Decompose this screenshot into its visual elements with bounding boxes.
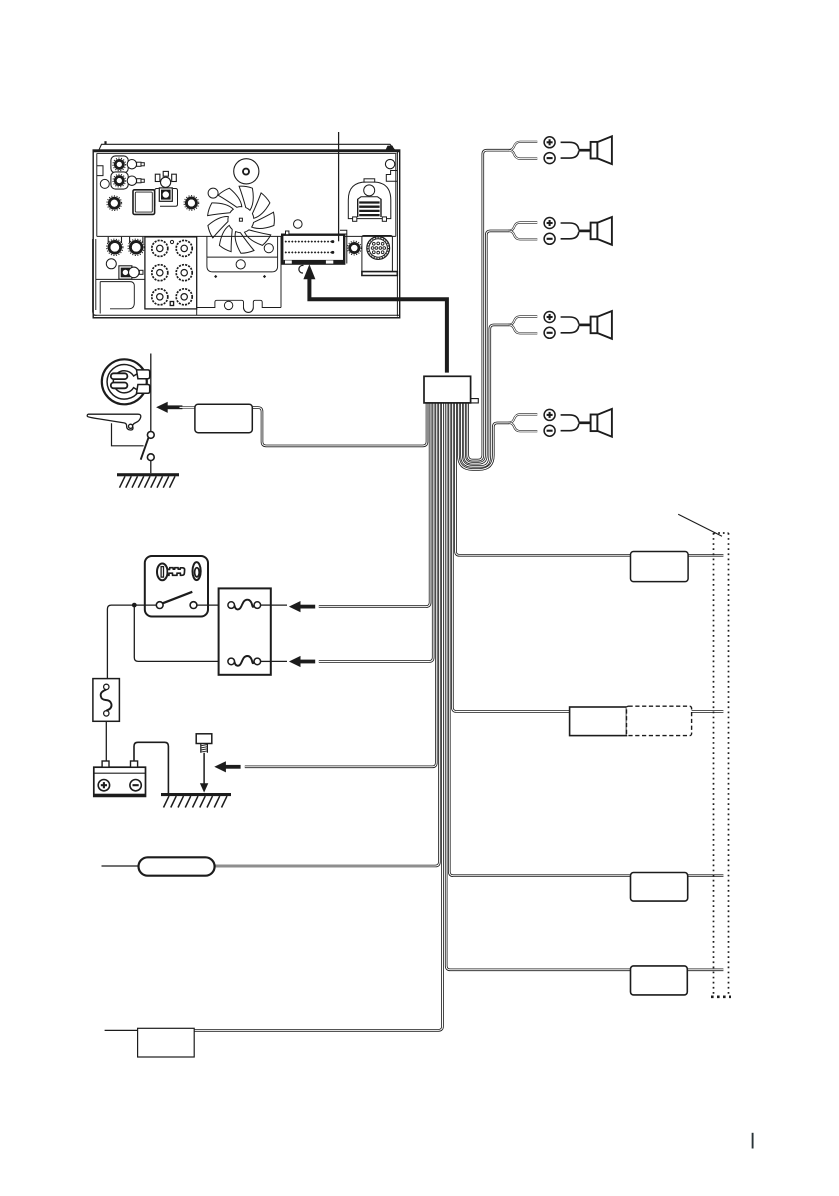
partition left of connector <box>280 236 282 307</box>
speaker RR minus terminal <box>544 425 555 436</box>
head unit rear panel <box>93 141 400 318</box>
arrowhead at connector <box>303 264 315 279</box>
bolt arrow to ground <box>203 753 205 785</box>
wire speaker FL pair <box>468 150 510 460</box>
RCA jack at 184.2,248.4 <box>176 240 192 256</box>
wire antenna control <box>456 401 724 555</box>
bottom plateau <box>197 300 281 307</box>
connector box parking brake <box>195 404 252 433</box>
brake switch blade <box>141 438 149 460</box>
square component <box>133 190 155 215</box>
fuse block <box>219 588 271 674</box>
parking brake hollow lead <box>180 406 195 408</box>
wire battery to ground <box>134 742 168 793</box>
screw top right <box>386 146 395 150</box>
RCA jack at 159.8,272.7 <box>152 265 168 281</box>
arrow ACC wire <box>289 601 315 612</box>
speaker FR fork <box>509 223 538 231</box>
unit outer frame <box>93 150 400 318</box>
keyhole <box>193 562 201 580</box>
speaker FR plus terminal <box>544 218 555 229</box>
wire remote 2 <box>446 401 723 970</box>
RCA barrel 1 <box>127 160 136 169</box>
barrel connector lower-left <box>119 266 132 279</box>
RCA plug pair <box>111 156 128 173</box>
RCA jack at 159.8,296.8 <box>152 289 168 305</box>
parking brake wire <box>150 354 152 432</box>
brake pedal <box>87 414 141 430</box>
speaker FR minus terminal <box>544 233 555 244</box>
wire fuse to battery <box>105 721 107 761</box>
connector box lower left <box>138 1028 195 1057</box>
wire key switch left <box>134 604 156 606</box>
curl clip <box>299 265 304 273</box>
RCA jack at 184.2,296.8 <box>176 289 192 305</box>
fuse 2 <box>228 658 235 665</box>
wire mute (brown) <box>194 401 443 1030</box>
leader line to harness connector <box>338 132 340 241</box>
inline fuse <box>93 679 120 722</box>
small circle lower-left <box>106 259 116 269</box>
battery minus <box>130 780 141 791</box>
dotted accessory boundary <box>711 533 731 997</box>
tiny square in jack block <box>170 302 173 306</box>
switch blade <box>163 592 193 604</box>
keyhole screw 2 <box>130 237 143 243</box>
connector box remote 2 <box>631 966 688 995</box>
cooling fan <box>208 186 275 253</box>
harness connector block <box>424 376 471 403</box>
speaker RR fork <box>509 414 538 422</box>
ground symbol (battery) <box>161 793 231 808</box>
pill fuse holder <box>139 857 215 875</box>
parking brake lamp <box>102 359 147 404</box>
Z bracket right edge <box>386 171 397 182</box>
speaker FR leads <box>561 223 579 230</box>
unit inner panel <box>97 154 396 237</box>
lamp terminals <box>137 370 150 379</box>
wire speaker RR pair <box>458 401 509 469</box>
RCA jack at 159.8,248.4 <box>152 240 168 256</box>
arrow ground wire <box>214 761 240 772</box>
page footer tick <box>752 1133 754 1149</box>
circle below fan right <box>264 244 273 253</box>
speaker FL leads <box>561 142 579 149</box>
small circle <box>100 179 109 188</box>
star bolt <box>347 241 361 255</box>
battery <box>94 767 146 796</box>
arrow to parking brake wire <box>156 402 182 413</box>
wire battery (yellow) <box>319 401 433 662</box>
RCA barrel 2 <box>127 176 136 185</box>
speaker RL leads <box>561 317 579 324</box>
fuse 1 <box>228 602 235 609</box>
unit top lid <box>99 144 395 150</box>
speaker RL fork <box>509 317 538 325</box>
dome transformer stripes <box>353 197 387 221</box>
speaker FL plus terminal <box>544 137 555 148</box>
left mounting ear <box>93 239 97 315</box>
wire stub left of lower box <box>105 1029 138 1031</box>
speaker FR symbol <box>591 223 598 240</box>
wire ignition ACC (red) <box>319 401 430 607</box>
DIN housing <box>362 236 393 264</box>
wire amp control <box>452 401 723 712</box>
connector box antenna control <box>631 552 689 582</box>
keyhole screw 1 <box>108 237 121 243</box>
speaker RL plus terminal <box>544 312 555 323</box>
junction dot <box>132 603 137 608</box>
arrow battery wire <box>289 656 315 667</box>
wire junction to fuse block lower <box>134 605 228 661</box>
circle above connector <box>294 220 303 229</box>
DIN connector <box>367 237 390 260</box>
lower-left compartment <box>96 278 145 280</box>
connector box amp control solid <box>570 707 627 736</box>
pedal bracket <box>112 423 144 446</box>
thick harness cable <box>309 277 447 373</box>
speaker FL symbol <box>591 142 598 159</box>
brake switch upper contact <box>147 432 154 439</box>
switch contact left <box>156 602 163 609</box>
speaker RR plus terminal <box>544 409 555 420</box>
speaker RL symbol <box>591 317 598 334</box>
relay component <box>155 189 178 207</box>
ground bolt <box>196 734 212 744</box>
connector box remote 1 <box>631 873 688 902</box>
wire speaker FR pair <box>465 231 510 463</box>
wire power control (blue) <box>214 401 439 866</box>
wire switch to fuse block <box>197 604 228 606</box>
dome component <box>348 182 391 219</box>
wire junction to fuse <box>107 605 134 679</box>
speaker FL minus terminal <box>544 153 555 164</box>
unit top edge <box>93 150 400 152</box>
switch contact right <box>190 602 197 609</box>
ground symbol (parking brake) <box>117 473 179 488</box>
RCA jack at 184.2,272.7 <box>176 265 192 281</box>
small circle near fan <box>208 188 218 198</box>
connector box amp control dashed <box>627 706 692 735</box>
connector right flange <box>340 230 347 263</box>
diagonal leader line <box>678 514 722 536</box>
harness connector socket <box>282 235 344 264</box>
fan tray <box>207 236 278 257</box>
battery plus <box>98 780 109 791</box>
wire to ground <box>150 461 152 474</box>
knurled washer left <box>107 196 122 211</box>
fan spindle <box>234 159 259 184</box>
wire stub left of pill fuse <box>102 865 139 867</box>
knurled washer right <box>184 196 199 211</box>
wire parking brake (lt.green) <box>252 401 427 446</box>
wire speaker RL pair <box>462 325 510 466</box>
speaker RL minus terminal <box>544 327 555 338</box>
left edge notch <box>97 166 103 176</box>
speaker RR leads <box>561 415 579 422</box>
key icon <box>157 564 168 581</box>
speaker RR symbol <box>591 415 598 432</box>
circle top right <box>385 159 394 168</box>
wire ground (black) <box>245 401 436 767</box>
speaker FL fork <box>509 142 538 150</box>
ignition key switch box <box>145 556 208 617</box>
RCA jack block <box>145 237 197 309</box>
wire remote 1 <box>449 401 723 876</box>
brake switch lower contact <box>147 454 154 461</box>
tiny circle in jack block <box>170 240 173 243</box>
